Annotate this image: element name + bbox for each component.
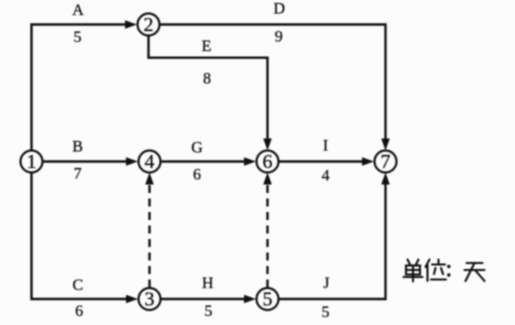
svg-text:4: 4 [145, 151, 155, 173]
svg-text:5: 5 [204, 303, 212, 320]
svg-text:C: C [72, 277, 83, 294]
svg-text:5: 5 [74, 29, 82, 46]
svg-text:6: 6 [75, 303, 83, 320]
svg-text:6: 6 [193, 167, 201, 184]
svg-text:E: E [202, 38, 212, 55]
svg-text:I: I [323, 138, 328, 155]
svg-text:6: 6 [263, 151, 273, 173]
svg-text:A: A [72, 2, 84, 19]
svg-text:8: 8 [203, 71, 211, 88]
svg-text:H: H [202, 275, 214, 292]
svg-text:3: 3 [145, 289, 155, 311]
svg-text:7: 7 [381, 151, 391, 173]
svg-text:B: B [72, 139, 83, 156]
svg-text:2: 2 [144, 14, 154, 36]
svg-text:5: 5 [263, 289, 273, 311]
svg-text:J: J [323, 275, 329, 292]
svg-text:4: 4 [322, 168, 330, 185]
svg-text:5: 5 [322, 304, 330, 321]
svg-text:G: G [191, 140, 203, 157]
svg-text:1: 1 [27, 151, 37, 173]
svg-text:9: 9 [275, 28, 283, 45]
svg-text:D: D [274, 1, 286, 18]
svg-text:7: 7 [74, 166, 82, 183]
